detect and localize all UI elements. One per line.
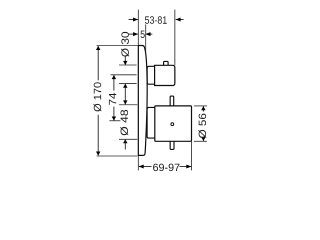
dim 5 text: [141, 31, 145, 38]
dim D48 text: [120, 110, 128, 135]
dim D30 arrowheads: [123, 61, 127, 88]
dim D56 text: [198, 114, 206, 138]
valve center dot: [171, 123, 174, 126]
dim D30 text: [121, 32, 129, 57]
dim 53-81 arrowheads: [133, 18, 181, 22]
dim D170 dimension line: [97, 46, 99, 155]
dim 5 arrowheads: [133, 32, 150, 36]
dim 74 extension stubs: [109, 75, 136, 121]
dim 69-97 text: [153, 164, 179, 172]
escutcheon plate outline: [138, 46, 147, 156]
dim 53-81 text: [145, 16, 167, 24]
valve top stem: [170, 96, 174, 106]
dim 74 text: [109, 93, 116, 105]
dim D48 arrowheads: [123, 100, 127, 143]
knob top tab: [164, 61, 169, 65]
dim D30 dimension line with outside arrows: [124, 57, 126, 105]
wall / plate back extension line: [137, 10, 139, 171]
thermostat knob neck: [147, 66, 154, 84]
dim D30 extension stubs: [119, 65, 137, 84]
dim 5 leaders: [128, 33, 152, 35]
dim D170 arrowheads: [96, 46, 100, 156]
dim D48 lower tail line: [124, 140, 126, 150]
dim 53-81 extension line right (knob front face): [174, 10, 176, 66]
dim D56 arrowheads: [201, 106, 205, 141]
dim D170 extension lines: [97, 46, 139, 157]
valve sleeve: [147, 107, 155, 138]
dim 74 arrowheads: [112, 75, 116, 121]
valve body: [155, 106, 192, 141]
dim D170 text: [94, 82, 102, 111]
dim 5 extension line right (plate front): [145, 25, 147, 53]
valve bottom stem: [170, 141, 174, 149]
dim 53-81 leaders: [129, 19, 184, 21]
dim 69-97 extension line right (valve front): [191, 142, 193, 171]
dim D56 extension stubs: [194, 106, 207, 141]
dim 74 dimension line: [113, 75, 115, 120]
thermostat knob body: [155, 65, 175, 85]
dim 69-97 arrowheads: [139, 165, 192, 169]
dim 69-97 dimension line: [139, 166, 191, 168]
dim D48 extension stubs: [119, 105, 137, 140]
dim D56 dimension line: [202, 106, 204, 141]
